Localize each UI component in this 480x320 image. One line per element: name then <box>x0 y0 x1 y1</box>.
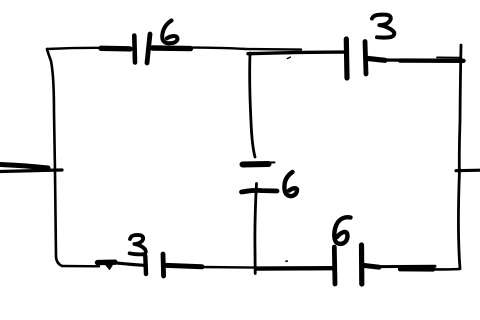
wire top right thin overlay <box>437 56 461 58</box>
capacitor C2 right lead <box>381 58 437 62</box>
wire top right thick <box>400 58 464 63</box>
capacitor C5 right lead <box>376 265 435 268</box>
capacitor C5 right lead wedge <box>364 265 380 267</box>
bottom wire right corner <box>431 268 460 271</box>
bottom wire middle thin <box>201 266 256 269</box>
bottom wire left thin <box>62 265 99 268</box>
capacitor C1 left lead <box>101 46 130 52</box>
label 6 for C1 <box>162 21 177 44</box>
stray dot <box>286 260 287 262</box>
right terminal stub <box>456 169 480 173</box>
capacitor C3 top plate thin tail <box>267 161 275 163</box>
capacitor C1 right plate <box>147 34 150 63</box>
capacitor C2 right lead wedge <box>368 59 385 61</box>
left terminal lead stroke lower <box>0 170 62 172</box>
capacitor C2 left plate <box>344 39 350 78</box>
middle vertical wire lower <box>255 184 257 274</box>
right vertical wire <box>458 45 461 269</box>
label 6 for C5 <box>334 217 350 244</box>
stray tick mark <box>287 57 290 59</box>
wire top-left horizontal <box>47 48 103 49</box>
label 3 for C4 <box>130 235 146 254</box>
capacitor C5 right plate <box>359 245 364 284</box>
left terminal lead stroke upper <box>0 165 48 169</box>
capacitor C2 right plate <box>365 42 366 75</box>
wire top middle doubled stroke <box>248 52 344 54</box>
capacitor C5 left lead thick <box>256 266 332 271</box>
wire top middle horizontal <box>190 48 301 50</box>
capacitor C4 right lead <box>167 265 203 266</box>
capacitor C1 right lead <box>153 45 191 51</box>
capacitor C3 bottom plate <box>242 190 278 192</box>
label 3 for C2 <box>372 15 394 38</box>
bottom wire right thick <box>400 267 433 272</box>
label 6 for C3 <box>284 172 297 196</box>
capacitor C4 right plate <box>161 254 166 276</box>
middle vertical wire upper <box>250 53 255 157</box>
left vertical wire <box>47 49 62 266</box>
capacitor C4 left plate <box>143 256 148 274</box>
capacitor C5 left plate <box>332 247 338 284</box>
capacitor C3 top plate <box>243 161 269 168</box>
capacitor C1 left plate <box>132 36 137 63</box>
capacitor C4 left lead with scribble <box>98 260 116 266</box>
